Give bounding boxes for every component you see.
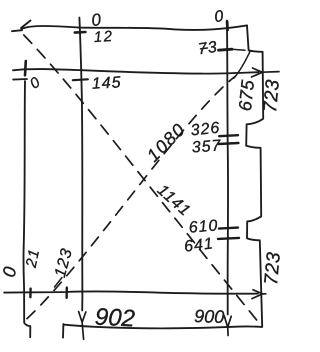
crossbar of 7 in 73 — [201, 47, 208, 50]
flourish of 1 in 123 — [55, 278, 63, 288]
diagonal D2 dashed (bottom-left to top-right) — [27, 77, 235, 319]
svg-text:21: 21 — [23, 247, 44, 270]
bottom dimension line 902/900 left stub — [62, 324, 64, 338]
top edge line — [22, 25, 248, 30]
right arrow of bottom edge — [252, 290, 266, 299]
pen blob at x=227 top crossing — [226, 22, 229, 31]
tick 73 — [219, 49, 233, 50]
right arrow of 145 line — [252, 68, 280, 77]
bottom edge line y=292 — [4, 291, 258, 293]
tick 123 — [65, 288, 68, 298]
vertical dim line x=227 — [227, 21, 228, 315]
diagonal D2 solid end — [234, 51, 251, 78]
svg-text:123: 123 — [52, 246, 76, 279]
tick 12 — [75, 31, 86, 34]
svg-text:610: 610 — [188, 217, 219, 237]
svg-text:675: 675 — [235, 78, 258, 112]
svg-text:326: 326 — [190, 120, 221, 140]
svg-text:641: 641 — [183, 235, 215, 255]
svg-text:1080: 1080 — [143, 119, 190, 166]
top-left arrow hook — [12, 21, 31, 32]
left edge tick cross — [24, 61, 27, 75]
svg-text:723: 723 — [261, 251, 285, 286]
svg-text:0: 0 — [27, 74, 44, 93]
tick 610 — [219, 228, 238, 229]
tick 145 — [73, 78, 88, 81]
thin extension of tick 73 — [232, 48, 245, 51]
tick 326 — [219, 135, 238, 136]
svg-text:357: 357 — [191, 137, 222, 156]
tick 357 — [218, 143, 238, 144]
feature line y=70 (145 level) — [13, 69, 259, 74]
right edge with notches — [246, 25, 263, 326]
svg-text:0: 0 — [0, 265, 20, 279]
left edge corner stub — [13, 78, 27, 81]
svg-text:902: 902 — [94, 303, 135, 332]
left edge vertical line — [24, 81, 31, 337]
svg-text:12: 12 — [93, 28, 114, 46]
svg-text:0: 0 — [90, 10, 103, 30]
bottom dimension line 902/900 — [63, 325, 262, 329]
svg-text:900: 900 — [194, 306, 225, 327]
tick 641 — [218, 238, 239, 239]
diagonal D1 dashed (top-left to bottom-right) — [24, 35, 262, 326]
svg-text:1141: 1141 — [154, 182, 194, 220]
vertical fold line x=80 — [79, 18, 82, 311]
tick 21 — [29, 289, 32, 298]
down arrow of x=80 line — [79, 312, 86, 340]
svg-text:723: 723 — [260, 78, 284, 113]
svg-text:145: 145 — [91, 74, 122, 93]
down arrow of x=227 line — [224, 316, 231, 336]
svg-text:0: 0 — [213, 8, 224, 26]
